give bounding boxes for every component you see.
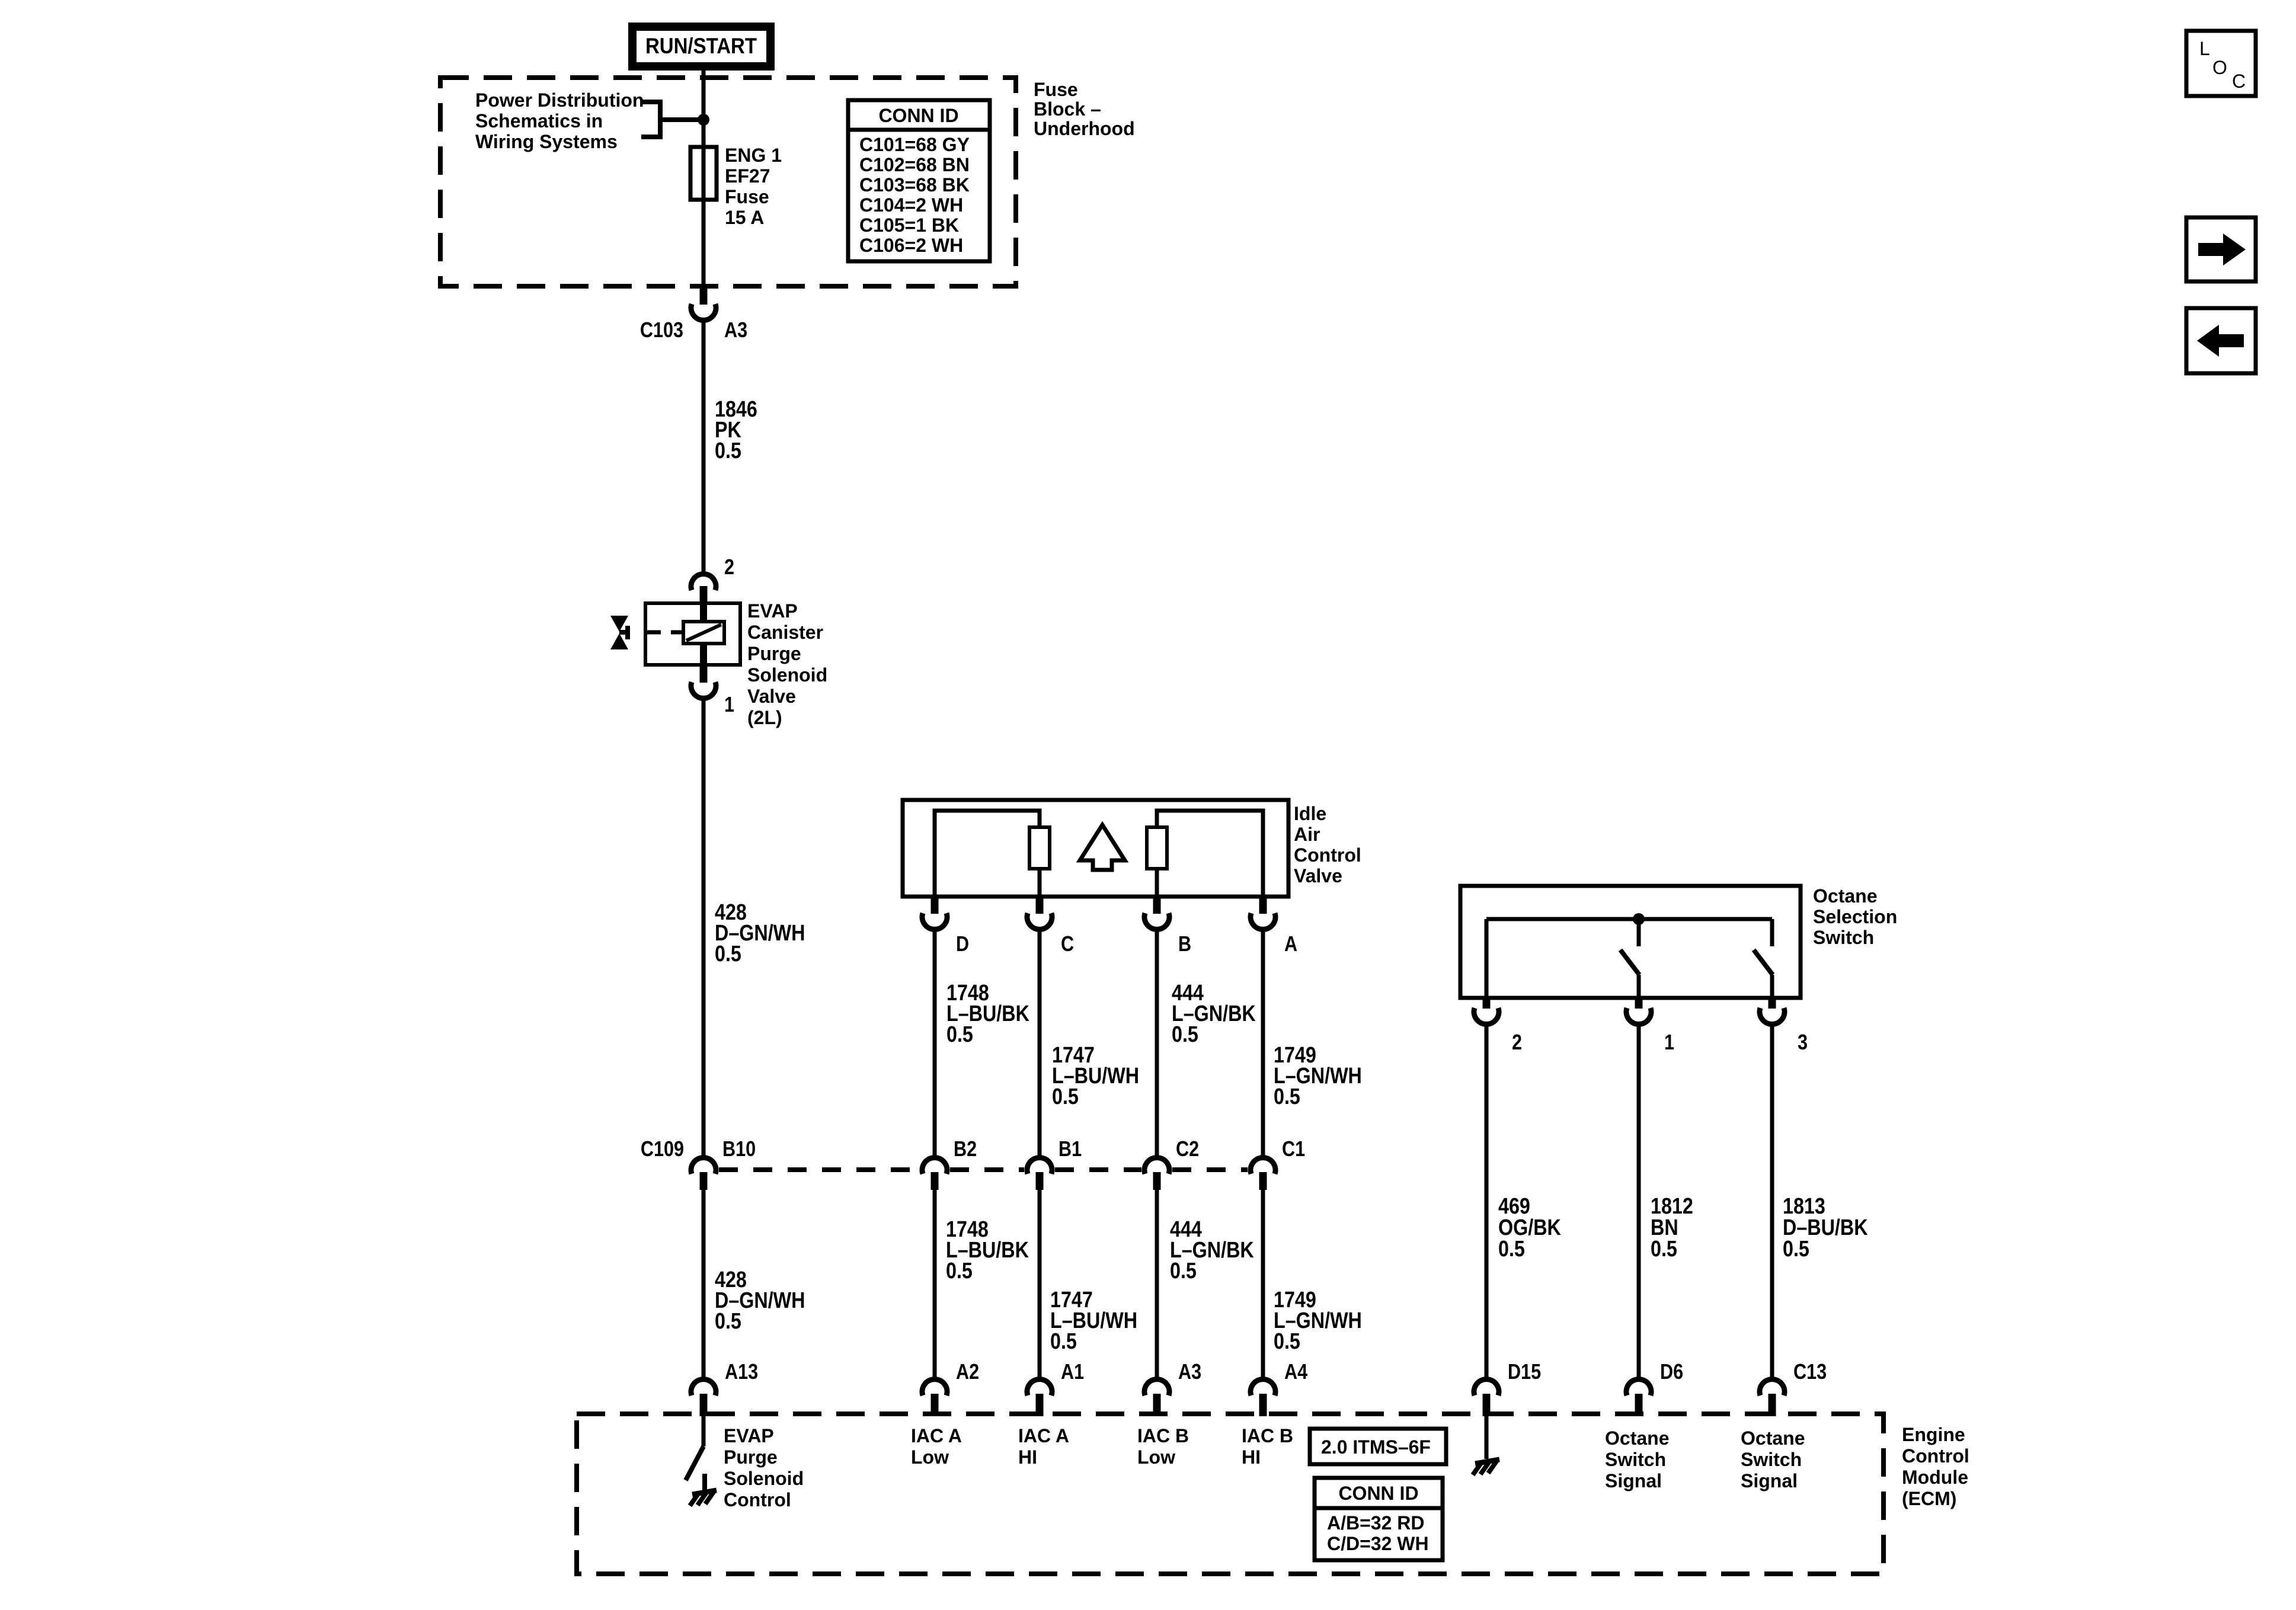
- label pin 3: [1798, 1031, 1808, 1055]
- svg-text:(ECM): (ECM): [1902, 1488, 1956, 1509]
- svg-text:0.5: 0.5: [715, 1309, 741, 1334]
- connector ECM pin A3: [1144, 1379, 1169, 1416]
- svg-text:3: 3: [1798, 1031, 1808, 1055]
- wire 1813 D-BU/BK: [1770, 1025, 1774, 1378]
- label 1748 L-BU/BK 0.5 upper: [946, 981, 1029, 1047]
- connector pin B of IAC valve: [1144, 897, 1169, 929]
- svg-text:Block –: Block –: [1034, 98, 1101, 120]
- label 1748 L-BU/BK 0.5 lower: [946, 1217, 1029, 1283]
- label C2: [1176, 1138, 1199, 1161]
- svg-text:C103=68 BK: C103=68 BK: [859, 174, 970, 196]
- wire 469 OG/BK: [1485, 1025, 1489, 1378]
- connector ECM pin D15: [1474, 1379, 1499, 1416]
- wire 1846 PK: [702, 320, 706, 573]
- wire 1747 L-BU/WH upper: [1038, 930, 1042, 1157]
- label ECM pin D6: [1660, 1361, 1683, 1384]
- nav arrow right: [2186, 217, 2256, 281]
- label Octane Switch Signal (D6): [1605, 1427, 1669, 1491]
- svg-text:Octane: Octane: [1605, 1427, 1669, 1449]
- label 1749 L-GN/WH 0.5 lower: [1274, 1288, 1362, 1354]
- label pin 2: [1512, 1031, 1522, 1055]
- label Octane Switch Signal (C13): [1741, 1427, 1805, 1491]
- label 1747 L-BU/WH 0.5 lower: [1050, 1288, 1137, 1354]
- svg-text:Signal: Signal: [1741, 1470, 1798, 1491]
- svg-text:CONN ID: CONN ID: [878, 105, 958, 126]
- svg-text:0.5: 0.5: [1651, 1237, 1677, 1262]
- octane switch blade 2: [1754, 950, 1773, 998]
- svg-text:15 A: 15 A: [725, 207, 764, 228]
- label 1747 L-BU/WH 0.5 upper: [1052, 1043, 1139, 1109]
- label ECM pin C13: [1793, 1361, 1827, 1384]
- svg-text:0.5: 0.5: [1274, 1084, 1300, 1109]
- svg-text:Switch: Switch: [1741, 1449, 1802, 1470]
- svg-text:B10: B10: [722, 1138, 756, 1161]
- svg-text:EVAP: EVAP: [724, 1425, 774, 1446]
- octane switch blade 1: [1620, 950, 1639, 998]
- svg-text:Underhood: Underhood: [1034, 118, 1135, 139]
- svg-text:L: L: [2199, 38, 2210, 59]
- svg-text:0.5: 0.5: [715, 942, 741, 966]
- svg-text:0.5: 0.5: [715, 438, 741, 463]
- label C103: [640, 319, 683, 343]
- circuit tag box 2.0 ITMS-6F: [1310, 1429, 1446, 1464]
- label 444 L-GN/BK 0.5 lower: [1170, 1217, 1254, 1283]
- ground (EVAP driver): [690, 1490, 717, 1506]
- svg-text:Switch: Switch: [1813, 927, 1874, 948]
- label EVAP Canister Purge Solenoid Valve (2L): [747, 600, 827, 728]
- wire D15 to ground: [1485, 1416, 1489, 1459]
- wire 1747 L-BU/WH lower: [1038, 1190, 1042, 1378]
- svg-text:Purge: Purge: [747, 643, 801, 664]
- svg-text:Control: Control: [724, 1489, 791, 1510]
- EVAP canister purge solenoid valve box: [645, 603, 740, 665]
- svg-text:2: 2: [724, 556, 734, 580]
- label pin C: [1061, 933, 1074, 956]
- svg-text:A3: A3: [724, 319, 747, 343]
- label Engine Control Module (ECM): [1902, 1424, 1969, 1509]
- connector C109 pin B2: [922, 1158, 947, 1190]
- svg-text:B2: B2: [954, 1138, 977, 1161]
- svg-text:EF27: EF27: [725, 165, 770, 187]
- connector pin 2 of EVAP valve: [691, 574, 716, 603]
- svg-text:EVAP: EVAP: [747, 600, 798, 622]
- connector pin 2 of octane switch: [1474, 998, 1499, 1024]
- label Idle Air Control Valve: [1294, 803, 1361, 886]
- svg-text:IAC A: IAC A: [911, 1425, 962, 1446]
- label ECM pin A1: [1061, 1361, 1084, 1384]
- label ECM pin D15: [1508, 1361, 1541, 1384]
- svg-text:0.5: 0.5: [1274, 1329, 1300, 1354]
- svg-text:A/B=32 RD: A/B=32 RD: [1327, 1512, 1425, 1534]
- EVAP purge solenoid control driver switch: [686, 1416, 705, 1492]
- svg-text:Octane: Octane: [1813, 885, 1877, 907]
- svg-text:B1: B1: [1059, 1138, 1082, 1161]
- wire 444 L-GN/BK lower: [1155, 1190, 1159, 1378]
- svg-text:2.0 ITMS–6F: 2.0 ITMS–6F: [1321, 1436, 1431, 1458]
- svg-text:Control: Control: [1294, 844, 1361, 866]
- connector ECM pin A1: [1027, 1379, 1052, 1416]
- svg-text:0.5: 0.5: [946, 1259, 973, 1283]
- label B10: [722, 1138, 756, 1161]
- wire 428 D-GN/WH lower: [702, 1190, 706, 1378]
- solenoid coil element: [683, 603, 724, 665]
- connector ECM pin A13: [691, 1379, 716, 1416]
- svg-text:Solenoid: Solenoid: [724, 1468, 804, 1489]
- connector-ID table CONN ID (fuse block): [848, 100, 990, 261]
- svg-text:Switch: Switch: [1605, 1449, 1666, 1470]
- wire 444 L-GN/BK upper: [1155, 930, 1159, 1157]
- connector pin A of IAC valve: [1251, 897, 1275, 929]
- label 428 D-GN/WH 0.5 lower: [715, 1267, 805, 1334]
- label C1: [1282, 1138, 1305, 1161]
- svg-text:C105=1 BK: C105=1 BK: [859, 215, 959, 236]
- label pin 1: [1664, 1031, 1674, 1055]
- svg-text:C: C: [2232, 71, 2246, 92]
- label Fuse Block - Underhood: [1034, 79, 1135, 139]
- svg-text:B: B: [1178, 933, 1191, 956]
- svg-text:Solenoid: Solenoid: [747, 664, 827, 686]
- svg-text:Purge: Purge: [724, 1446, 778, 1468]
- svg-text:0.5: 0.5: [1783, 1237, 1809, 1262]
- harness connector C109 dashed line: [719, 1167, 1248, 1172]
- svg-text:C2: C2: [1176, 1138, 1199, 1161]
- label 1749 L-GN/WH 0.5 upper: [1274, 1043, 1362, 1109]
- engine control module dashed outline: [577, 1414, 1884, 1574]
- svg-text:0.5: 0.5: [946, 1022, 973, 1047]
- svg-text:A1: A1: [1061, 1361, 1084, 1384]
- connector pin 3 of octane switch: [1760, 998, 1785, 1024]
- svg-text:RUN/START: RUN/START: [645, 34, 757, 58]
- connector pin D of IAC valve: [922, 897, 947, 929]
- svg-text:Wiring Systems: Wiring Systems: [475, 131, 618, 152]
- connector ECM pin C13: [1760, 1379, 1785, 1416]
- connector C109 pin B1: [1027, 1158, 1052, 1190]
- label B1: [1059, 1138, 1082, 1161]
- power feed box RUN/START: [632, 27, 770, 66]
- svg-text:0.5: 0.5: [1172, 1022, 1198, 1047]
- label EVAP Purge Solenoid Control: [724, 1425, 804, 1510]
- svg-text:Idle: Idle: [1294, 803, 1326, 824]
- svg-text:Valve: Valve: [1294, 865, 1342, 886]
- connector pin 1 of EVAP valve: [691, 665, 716, 698]
- label ECM pin A2: [956, 1361, 979, 1384]
- svg-text:0.5: 0.5: [1498, 1237, 1525, 1262]
- svg-text:HI: HI: [1242, 1446, 1261, 1468]
- svg-text:C104=2 WH: C104=2 WH: [859, 194, 963, 216]
- svg-text:C106=2 WH: C106=2 WH: [859, 235, 963, 256]
- label ECM pin A4: [1284, 1361, 1307, 1384]
- wire RUN/START to fuse ENG1: [702, 71, 706, 148]
- connector ECM pin D6: [1626, 1379, 1651, 1416]
- label ENG 1 EF27 Fuse 15 A: [725, 145, 782, 228]
- label pin 1: [724, 693, 734, 717]
- connector-ID table CONN ID (ECM): [1315, 1478, 1443, 1560]
- node junction dot: [698, 114, 709, 126]
- svg-text:C: C: [1061, 933, 1074, 956]
- label pin B: [1178, 933, 1191, 956]
- svg-text:D15: D15: [1508, 1361, 1541, 1384]
- svg-text:Control: Control: [1902, 1445, 1969, 1467]
- idle air control valve box: [903, 800, 1288, 897]
- label pin A: [1284, 933, 1297, 956]
- connector C109 pin B10: [691, 1158, 716, 1190]
- svg-text:A2: A2: [956, 1361, 979, 1384]
- svg-text:Fuse: Fuse: [725, 186, 769, 207]
- svg-text:Power Distribution: Power Distribution: [475, 89, 644, 111]
- label C109: [641, 1138, 684, 1161]
- wire 1748 L-BU/BK upper: [933, 930, 937, 1157]
- fuse ENG 1 EF27: [690, 147, 717, 285]
- ground (D15): [1473, 1459, 1499, 1475]
- svg-text:A: A: [1284, 933, 1297, 956]
- svg-text:1: 1: [724, 693, 734, 717]
- nav arrow left: [2186, 308, 2256, 373]
- label IAC B Low: [1137, 1425, 1189, 1468]
- label 469 OG/BK 0.5: [1498, 1194, 1561, 1262]
- octane selection switch box: [1460, 886, 1801, 998]
- fuse block dashed outline (Fuse Block - Underhood): [440, 78, 1016, 286]
- svg-text:C/D=32 WH: C/D=32 WH: [1327, 1533, 1429, 1554]
- wire 1749 L-GN/WH lower: [1261, 1190, 1265, 1378]
- label pin D: [956, 933, 969, 956]
- connector pin C of IAC valve: [1027, 897, 1052, 929]
- label A3: [724, 319, 747, 343]
- svg-text:C109: C109: [641, 1138, 684, 1161]
- svg-text:Low: Low: [1137, 1446, 1175, 1468]
- svg-text:A13: A13: [725, 1361, 758, 1384]
- wire 1748 L-BU/BK lower: [933, 1190, 937, 1378]
- connector pin 1 of octane switch: [1626, 998, 1651, 1024]
- svg-text:Selection: Selection: [1813, 906, 1897, 927]
- svg-text:Low: Low: [911, 1446, 949, 1468]
- svg-text:Air: Air: [1294, 824, 1320, 845]
- connector C103 pin A3: [691, 285, 716, 320]
- svg-text:HI: HI: [1018, 1446, 1037, 1468]
- svg-text:2: 2: [1512, 1031, 1522, 1055]
- label 444 L-GN/BK 0.5 upper: [1172, 981, 1256, 1047]
- svg-text:D: D: [956, 933, 969, 956]
- label Octane Selection Switch: [1813, 885, 1897, 948]
- svg-text:Octane: Octane: [1741, 1427, 1805, 1449]
- svg-text:Schematics in: Schematics in: [475, 110, 603, 132]
- svg-text:A3: A3: [1178, 1361, 1201, 1384]
- svg-text:O: O: [2212, 57, 2227, 78]
- valve symbol (bowtie) with actuator link: [610, 616, 683, 649]
- svg-text:(2L): (2L): [747, 707, 782, 728]
- wire 1812 BN: [1637, 1025, 1641, 1378]
- callout bracket Power Distribution: [641, 100, 703, 139]
- label ECM pin A3: [1178, 1361, 1201, 1384]
- svg-text:Fuse: Fuse: [1034, 79, 1078, 100]
- connector C109 pin C2: [1144, 1158, 1169, 1190]
- svg-text:C13: C13: [1793, 1361, 1827, 1384]
- wire 1749 L-GN/WH upper: [1261, 930, 1265, 1157]
- svg-text:C103: C103: [640, 319, 683, 343]
- svg-text:Valve: Valve: [747, 686, 796, 707]
- IAC winding A (left coil): [935, 811, 1050, 897]
- octane switch common wire: [1486, 913, 1772, 998]
- svg-text:C101=68 GY: C101=68 GY: [859, 134, 970, 155]
- svg-text:CONN ID: CONN ID: [1338, 1483, 1418, 1504]
- svg-text:IAC A: IAC A: [1018, 1425, 1069, 1446]
- connector ECM pin A2: [922, 1379, 947, 1416]
- connector ECM pin A4: [1251, 1379, 1275, 1416]
- svg-text:1: 1: [1664, 1031, 1674, 1055]
- svg-text:0.5: 0.5: [1050, 1329, 1077, 1354]
- svg-text:Signal: Signal: [1605, 1470, 1662, 1491]
- wire 428 D-GN/WH upper: [702, 698, 706, 1157]
- svg-text:ENG 1: ENG 1: [725, 145, 782, 166]
- label IAC A Low: [911, 1425, 962, 1468]
- svg-text:C1: C1: [1282, 1138, 1305, 1161]
- label 1812 BN 0.5: [1651, 1194, 1693, 1262]
- IAC winding B (right coil): [1147, 811, 1263, 897]
- label IAC A HI: [1018, 1425, 1069, 1468]
- label Power Distribution Schematics in Wiring Systems: [475, 89, 644, 152]
- label B2: [954, 1138, 977, 1161]
- svg-text:D6: D6: [1660, 1361, 1683, 1384]
- svg-text:Engine: Engine: [1902, 1424, 1965, 1445]
- label ECM pin A13: [725, 1361, 758, 1384]
- svg-text:IAC B: IAC B: [1242, 1425, 1293, 1446]
- svg-text:Canister: Canister: [747, 622, 823, 643]
- label 428 D-GN/WH 0.5 upper: [715, 900, 805, 966]
- svg-text:0.5: 0.5: [1052, 1084, 1079, 1109]
- svg-text:0.5: 0.5: [1170, 1259, 1197, 1283]
- label 1846 PK 0.5: [715, 397, 757, 463]
- svg-text:Module: Module: [1902, 1467, 1968, 1488]
- label 1813 D-BU/BK 0.5: [1783, 1194, 1868, 1262]
- svg-text:IAC B: IAC B: [1137, 1425, 1189, 1446]
- IAC arrow symbol: [1080, 825, 1125, 870]
- label pin 2: [724, 556, 734, 580]
- svg-text:C102=68 BN: C102=68 BN: [859, 154, 970, 175]
- legend box LOC: [2186, 31, 2256, 96]
- connector C109 pin C1: [1251, 1158, 1275, 1190]
- svg-text:A4: A4: [1284, 1361, 1307, 1384]
- label IAC B HI: [1242, 1425, 1293, 1468]
